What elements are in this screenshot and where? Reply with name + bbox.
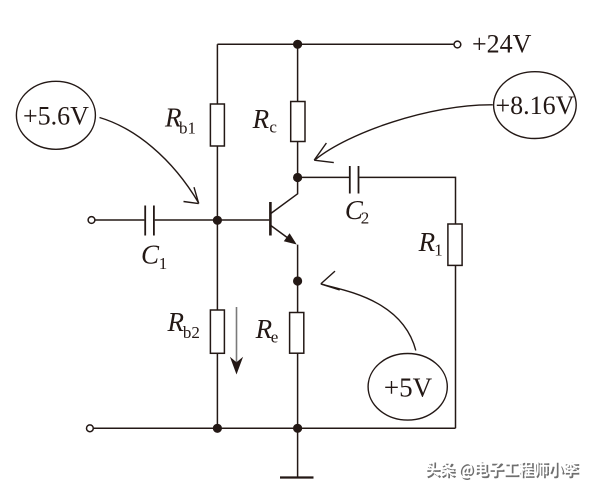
node dot collector <box>293 173 302 182</box>
label Rc <box>252 104 278 137</box>
svg-text:b1: b1 <box>179 119 196 138</box>
wire top rail <box>217 43 453 45</box>
svg-text:+8.16V: +8.16V <box>496 91 575 120</box>
callout ellipse +5.6V <box>16 81 95 149</box>
svg-text:c: c <box>269 118 277 137</box>
label C2 <box>345 195 369 228</box>
callout arrow +8.16V to collector <box>314 105 493 163</box>
wire middle branch collector vertical <box>297 44 299 177</box>
callout arrow +5V to emitter <box>321 271 416 350</box>
wire ground lead <box>297 428 299 477</box>
node dot base <box>213 216 222 225</box>
svg-text:R: R <box>418 227 436 257</box>
resistor Rb1 <box>210 104 224 146</box>
capacitor C2 <box>350 166 359 194</box>
terminal input <box>88 217 95 224</box>
wire emitter vertical <box>297 245 299 429</box>
svg-text:+24V: +24V <box>472 29 532 58</box>
node dot emitter <box>293 276 302 285</box>
ground <box>280 476 314 478</box>
callout arrow +5.6V to base node <box>100 118 199 204</box>
resistor Rc <box>291 102 305 142</box>
label C1 <box>141 239 167 273</box>
wire input to C1 <box>95 219 144 221</box>
svg-text:2: 2 <box>361 208 370 227</box>
wire left branch vertical <box>216 44 218 428</box>
svg-text:R: R <box>252 104 270 134</box>
node dot bottom middle branch <box>293 424 302 433</box>
wire C1 to base node <box>155 219 270 221</box>
wire R1 bottom to rail <box>455 265 457 428</box>
label Rb1 <box>164 102 196 137</box>
callout ellipse +8.16V <box>494 72 577 139</box>
terminal +24V <box>454 41 461 48</box>
svg-text:e: e <box>271 328 279 347</box>
current direction arrow beside Rb2 <box>230 307 243 375</box>
label R1 <box>418 227 443 259</box>
wire bottom rail <box>93 427 455 429</box>
svg-text:1: 1 <box>159 254 168 273</box>
terminal bottom left <box>87 425 94 432</box>
svg-text:1: 1 <box>434 240 443 259</box>
node dot top rail <box>293 40 302 49</box>
label Rb2 <box>167 307 200 342</box>
resistor Re <box>290 313 304 354</box>
callout ellipse +5V <box>368 354 447 421</box>
svg-text:C: C <box>141 239 160 269</box>
label Re <box>255 314 279 347</box>
wire C2 to R1 corner <box>359 177 455 224</box>
svg-text:+5V: +5V <box>384 373 433 403</box>
transistor Q1 <box>270 178 297 243</box>
resistor R1 <box>448 224 462 265</box>
watermark 头条@电子工程师小李 <box>426 461 580 480</box>
capacitor C1 <box>145 206 154 236</box>
svg-text:R: R <box>167 307 185 337</box>
resistor Rb2 <box>210 310 224 353</box>
node dot bottom left branch <box>213 424 222 433</box>
wire collector node to C2 <box>298 176 349 178</box>
svg-text:b2: b2 <box>183 323 200 342</box>
svg-text:+5.6V: +5.6V <box>23 101 89 130</box>
